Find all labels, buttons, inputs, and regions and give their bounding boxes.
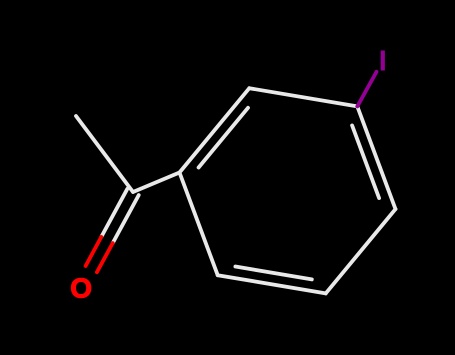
svg-text:O: O [70,272,92,303]
svg-text:I: I [379,46,387,78]
